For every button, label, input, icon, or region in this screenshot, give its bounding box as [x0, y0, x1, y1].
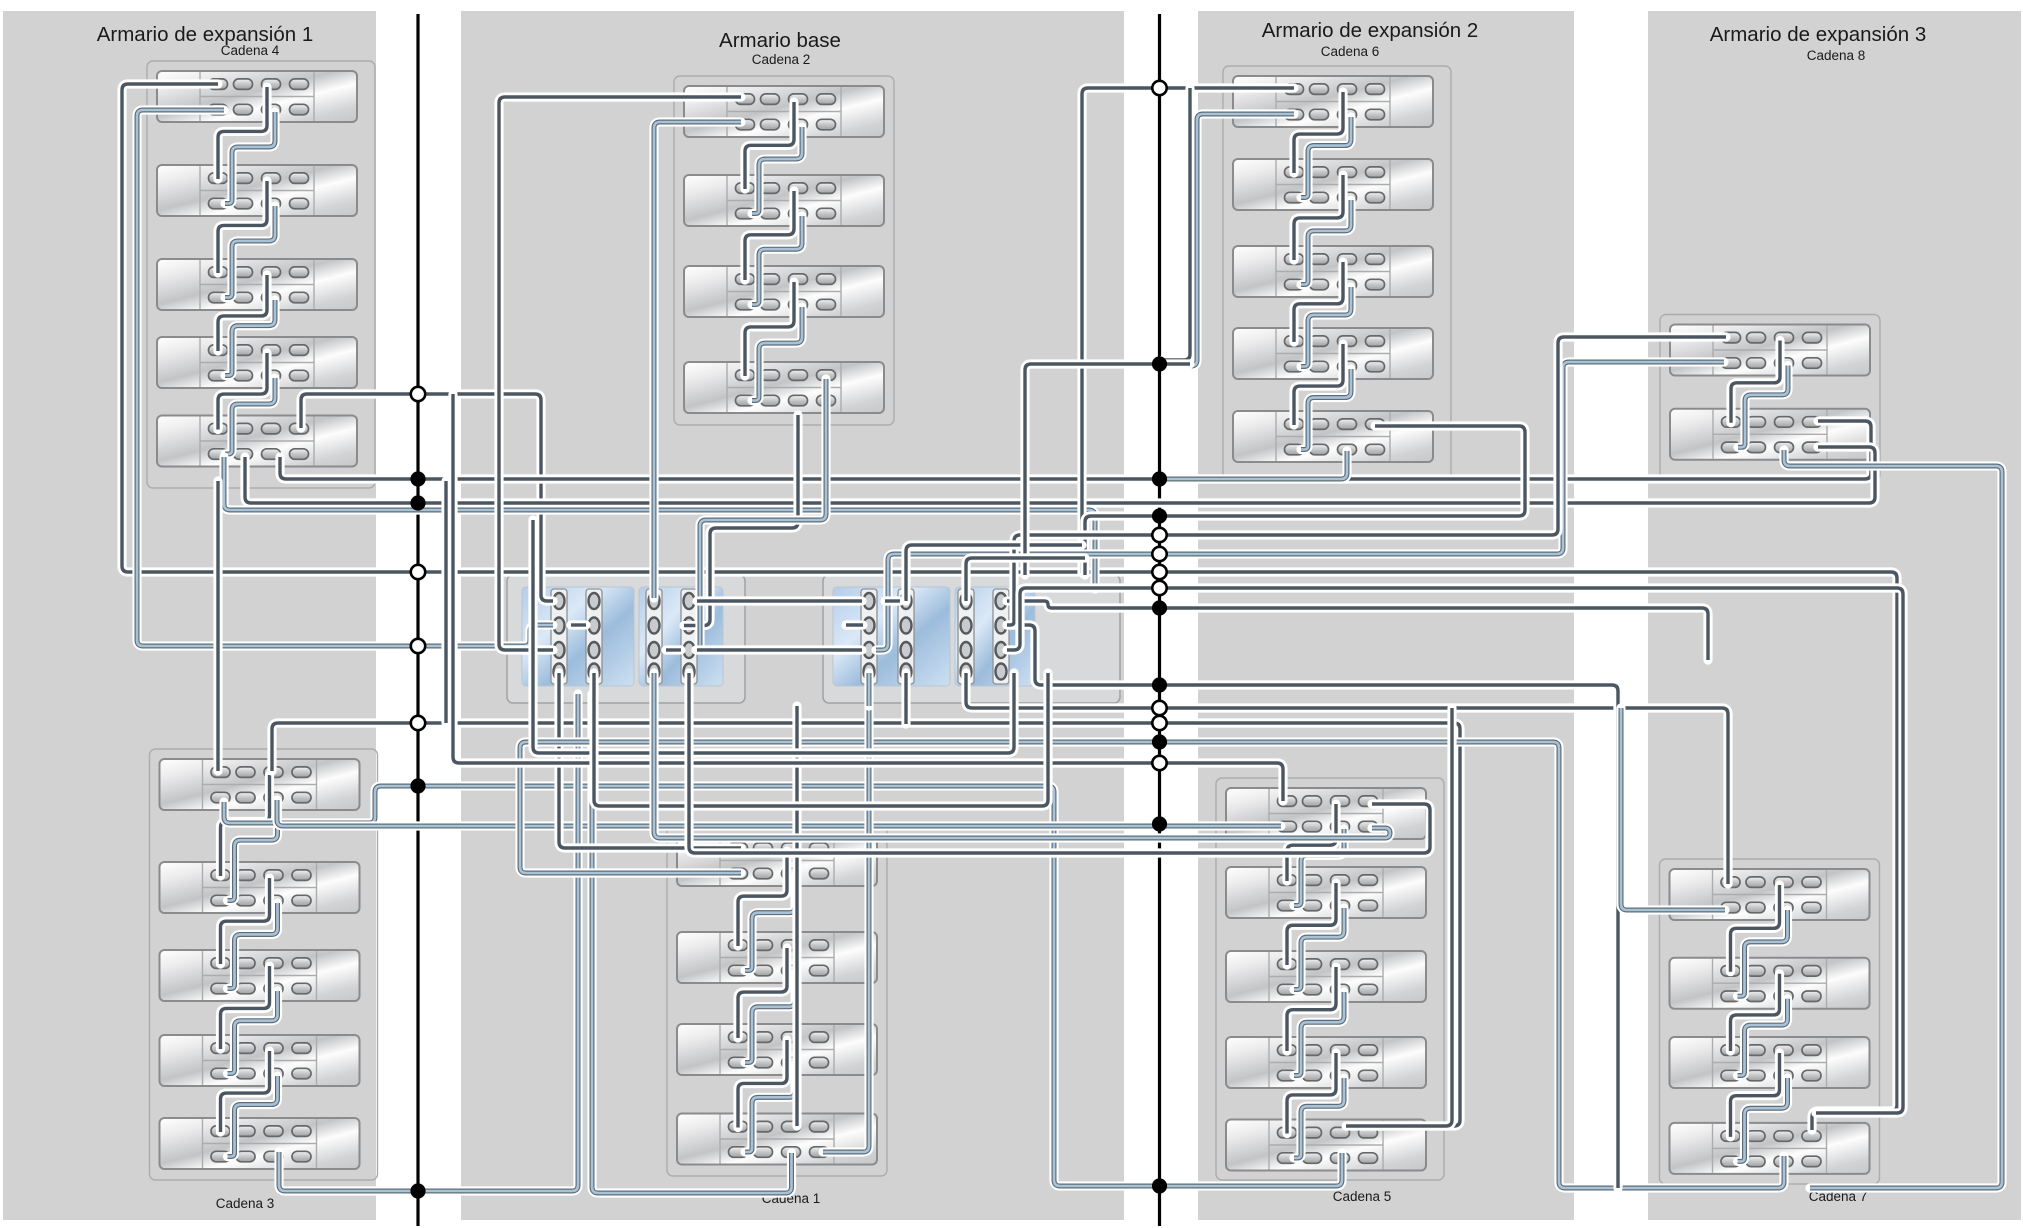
- wire chain C4 gap4 blue: [225, 378, 275, 454]
- wire C2s1 topP1 riser: [499, 97, 741, 650]
- controller U2 board A: [833, 587, 950, 686]
- node right 742: [1152, 734, 1167, 749]
- wire chain C4 gap2 blue: [225, 206, 275, 298]
- wire chain C1 gap1 dark: [738, 851, 787, 946]
- node left 786: [410, 778, 425, 793]
- node right 88: [1152, 81, 1166, 95]
- wire chain C6 gap1 blue: [1301, 117, 1351, 198]
- node left 503: [410, 495, 425, 510]
- disk shelf C4-3: [157, 259, 357, 310]
- disk shelf C4-1: [157, 71, 357, 122]
- wire bus364 left stub: [1025, 364, 1190, 575]
- wire stub U2 strip1 down: [864, 673, 873, 706]
- svg-text:Cadena 3: Cadena 3: [216, 1196, 275, 1211]
- disk shelf C6-2: [1233, 159, 1433, 210]
- wire C2s1 botP1 riser: [654, 122, 741, 598]
- wire hook U1s2 p2: [571, 620, 586, 629]
- node left 394: [411, 387, 425, 401]
- wire chain C5 gap4 blue: [1294, 1078, 1344, 1158]
- panel Armario de expansion 3: [1648, 11, 2021, 1220]
- disk shelf C4-4: [157, 337, 357, 388]
- wire chain C1 gap3 dark: [738, 1040, 787, 1128]
- wire chain C8 gap1 dark: [1731, 341, 1780, 423]
- wire chain C3 gap4 blue: [228, 1076, 278, 1157]
- node left 646: [411, 639, 425, 653]
- controller port strip 1: [551, 589, 567, 684]
- controller U2 chassis: [823, 575, 1120, 703]
- vertical line left: [416, 14, 419, 1226]
- wire chain C4 gap3 blue: [225, 300, 275, 376]
- node right 1186: [1152, 1178, 1167, 1193]
- wire chain C8 gap1 blue: [1738, 366, 1788, 448]
- disk shelf C8-1: [1670, 325, 1870, 376]
- stack outline C6: [1223, 66, 1451, 480]
- node right 516: [1152, 508, 1167, 523]
- disk shelf C6-3: [1233, 246, 1433, 297]
- wire bus685 riser P3P4 gap: [1007, 625, 1618, 1188]
- wire chain C1 gap2 blue: [745, 973, 795, 1063]
- controller port strip 6: [898, 589, 914, 684]
- wire chain C1 gap1 blue: [745, 876, 795, 971]
- wire bus708 to C7s1 topP1: [966, 673, 1728, 884]
- wire chain C4 gap3 dark: [218, 275, 267, 351]
- wire band853 to C5s1 topP4: [689, 673, 1430, 853]
- stack outline C3: [150, 749, 378, 1180]
- wire chain C7 gap1 dark: [1731, 885, 1780, 972]
- wire ctrlA-ctrlB link2: [697, 645, 862, 654]
- wire stub above U2 a: [906, 545, 1082, 601]
- disk shelf C3-4: [160, 1035, 360, 1086]
- node right 535: [1152, 528, 1166, 542]
- stack outline C8: [1660, 315, 1880, 481]
- wire chain C7 gap3 blue: [1738, 1078, 1788, 1161]
- disk shelf C5-2: [1226, 867, 1426, 918]
- svg-text:Cadena 4: Cadena 4: [221, 43, 280, 58]
- wire chain C4 gap2 dark: [218, 181, 267, 273]
- stack outline C2: [674, 76, 894, 425]
- svg-text:Cadena 5: Cadena 5: [1333, 1189, 1392, 1204]
- node right 608: [1152, 600, 1167, 615]
- disk shelf C5-3: [1226, 951, 1426, 1002]
- disk shelf C4-5: [157, 416, 357, 467]
- controller U1 board B: [639, 587, 723, 686]
- vertical line right: [1158, 14, 1161, 1226]
- svg-text:Cadena 8: Cadena 8: [1807, 48, 1866, 63]
- disk shelf C2-2: [684, 175, 884, 226]
- wire hook U2s2 p1: [885, 596, 900, 605]
- wire C1s1 topP1 to U1 strip1: [559, 673, 741, 848]
- wire bus608 hook: [1007, 601, 1708, 660]
- wire band838 to C5s1 botP4: [654, 673, 1390, 838]
- panel Armario de expansion 1: [3, 11, 376, 1220]
- wire ctrlA-ctrlB link1: [697, 596, 862, 605]
- wire branch708 to C5s5 topP3: [1346, 708, 1452, 1126]
- wire chain C5 gap1 blue: [1294, 829, 1344, 906]
- wire chain C4 gap4 dark: [218, 353, 267, 430]
- wire C8s2 botP3 bottom route: [1784, 450, 2002, 1188]
- svg-text:Armario de expansión 3: Armario de expansión 3: [1710, 23, 1927, 46]
- wire chain C3 gap3 blue: [228, 991, 278, 1074]
- wire chain C7 gap1 blue: [1738, 910, 1788, 996]
- disk shelf C4-2: [157, 165, 357, 216]
- wire C6s1 botP1 to node364: [1163, 114, 1294, 366]
- wire stub above U2 b: [966, 558, 1085, 601]
- wire chain C6 gap2 dark: [1294, 175, 1343, 260]
- panel Armario base: [461, 11, 1124, 1220]
- wire chain C2 gap1 blue: [752, 127, 802, 214]
- wire chain C3 gap2 dark: [221, 878, 270, 964]
- wire riser to C1s4 topP3: [792, 706, 801, 1126]
- wire C3s1 topP3 bus723: [272, 723, 1460, 1126]
- disk shelf C3-5: [160, 1118, 360, 1169]
- wire chain C7 gap2 blue: [1738, 999, 1788, 1076]
- controller port strip 4: [681, 589, 697, 684]
- node left 479: [410, 471, 425, 486]
- controller U1 board A: [522, 587, 634, 686]
- wire chain C6 gap4 blue: [1301, 369, 1351, 450]
- wire chain C4 gap1 dark: [218, 87, 267, 179]
- node right 824: [1152, 816, 1167, 831]
- wire C3s1 topP1 riser: [213, 481, 222, 771]
- wire chain C7 gap3 dark: [1731, 1053, 1780, 1137]
- wire chain C6 gap3 dark: [1294, 262, 1343, 342]
- wire chain C4 gap1 blue: [225, 112, 275, 204]
- disk shelf C3-1: [160, 759, 360, 810]
- wire C6s5 botP3 bus479: [1163, 451, 1347, 479]
- wire C1s1 botP1 bus742 to C7s4 botP3: [520, 742, 1784, 1188]
- node right 588: [1152, 581, 1166, 595]
- disk shelf C3-2: [160, 862, 360, 913]
- wire chain C6 gap3 blue: [1301, 287, 1351, 367]
- wire chain C1 gap3 blue: [745, 1065, 795, 1152]
- wire gap riser P1P2: [441, 481, 450, 723]
- wire hook U2s1 p2: [846, 620, 863, 629]
- wire C2s4 topP4 down: [696, 379, 826, 650]
- node right 708: [1152, 701, 1166, 715]
- node right 723: [1152, 716, 1166, 730]
- wire chain C3 gap1 dark: [221, 775, 270, 876]
- wire chain C5 gap3 blue: [1294, 992, 1344, 1076]
- disk shelf C2-3: [684, 266, 884, 317]
- disk shelf C2-1: [684, 86, 884, 137]
- node left 1191: [410, 1183, 425, 1198]
- wire hook U1s4 p3: [666, 645, 681, 654]
- wire C4s5 botP2 bus503 to C8s2 botP4: [245, 447, 1875, 503]
- disk shelf C1-3: [677, 1024, 877, 1075]
- controller port strip 2: [586, 589, 602, 684]
- disk shelf C1-2: [677, 932, 877, 983]
- wire chain C3 gap4 dark: [221, 1051, 270, 1132]
- disk shelf C7-1: [1670, 869, 1870, 920]
- svg-text:Armario base: Armario base: [719, 29, 841, 52]
- wire chain C2 gap2 blue: [752, 216, 802, 305]
- disk shelf C7-4: [1670, 1123, 1870, 1174]
- disk shelf C1-4: [677, 1114, 877, 1165]
- wire chain C3 gap3 dark: [221, 966, 270, 1049]
- wire chain C3 gap2 blue: [228, 903, 278, 989]
- disk shelf C6-5: [1233, 411, 1433, 462]
- wire bus535 to C8s1 topP1: [1007, 337, 1726, 625]
- wire under-controller loop1: [533, 520, 1014, 753]
- stack outline C5: [1216, 778, 1444, 1180]
- wire C4s1 botP1 bus646: [137, 110, 553, 646]
- wire chain C2 gap3 dark: [745, 282, 794, 376]
- wire chain C2 gap1 dark: [745, 102, 794, 189]
- wire chain C6 gap4 dark: [1294, 344, 1343, 425]
- stack outline C4: [147, 61, 375, 488]
- wire C6s5 topP4 bus516: [1085, 426, 1525, 575]
- wire chain C3 gap1 blue: [228, 800, 278, 901]
- disk shelf C6-1: [1233, 76, 1433, 127]
- svg-text:Cadena 6: Cadena 6: [1321, 44, 1380, 59]
- svg-text:Armario de expansión 2: Armario de expansión 2: [1262, 19, 1479, 42]
- disk shelf C1-1: [677, 835, 877, 886]
- disk shelf C7-2: [1670, 958, 1870, 1009]
- wire stub U2 strip2 down: [901, 673, 910, 724]
- disk shelf C7-3: [1670, 1037, 1870, 1088]
- disk shelf C3-3: [160, 950, 360, 1001]
- controller port strip 7: [958, 589, 974, 684]
- svg-text:Cadena 2: Cadena 2: [752, 52, 811, 67]
- wire C4s5 botP3 bus479 to C8s2 topP4: [280, 421, 1871, 479]
- disk shelf C6-4: [1233, 328, 1433, 379]
- node left 572: [411, 565, 425, 579]
- wire chain C5 gap2 dark: [1287, 883, 1336, 965]
- disk shelf C5-5: [1226, 1120, 1426, 1171]
- wire bus88 to C6s1 topP1: [1082, 88, 1294, 573]
- wire C4s5 topP4 bus394: [301, 394, 553, 601]
- node right 763: [1152, 756, 1166, 770]
- node right 554: [1152, 547, 1166, 561]
- node right 479: [1152, 471, 1167, 486]
- controller port strip 8: [993, 589, 1009, 684]
- wire C4s1 topP1 bus572 to C7s4 topP4: [122, 84, 1897, 1130]
- wire chain C6 gap1 dark: [1294, 92, 1343, 173]
- wire riser to C1s4 botP4: [823, 706, 869, 1152]
- disk shelf C8-2: [1670, 409, 1870, 460]
- disk shelf C5-4: [1226, 1037, 1426, 1088]
- controller port strip 3: [646, 589, 662, 684]
- wire C3s1 botP1 bus786 to C5s5: [224, 786, 1342, 1186]
- wire chain C5 gap3 dark: [1287, 967, 1336, 1051]
- controller port strip 5: [861, 589, 877, 684]
- controller U1 chassis: [507, 575, 745, 703]
- wire chain C2 gap3 blue: [752, 307, 802, 401]
- wire chain C7 gap2 dark: [1731, 974, 1780, 1051]
- node left 723: [411, 716, 425, 730]
- panel Armario de expansion 2: [1198, 11, 1574, 1220]
- disk shelf C2-4: [684, 362, 884, 413]
- wire C3s1 botP3 bus824: [277, 800, 1281, 826]
- wire bottom bus to C1s4: [592, 694, 792, 1193]
- stack outline C1: [667, 825, 887, 1176]
- wire gap riser to C7s1 botP1: [1621, 708, 1725, 910]
- wire chain C5 gap1 dark: [1287, 804, 1336, 881]
- wire C3s5 botP3 bottom bus: [279, 694, 578, 1191]
- wire chain C5 gap4 dark: [1287, 1053, 1336, 1134]
- wire chain C6 gap2 blue: [1301, 200, 1351, 285]
- wire bus763 to C5s1 topP1: [453, 394, 1283, 801]
- wire bus554 to C8s1 botP1: [876, 362, 1724, 650]
- node right 685: [1152, 677, 1167, 692]
- node right 572: [1152, 565, 1166, 579]
- wire C2s4 botP3 down: [684, 415, 798, 626]
- wire chain C1 gap2 dark: [738, 948, 787, 1038]
- wire under-controller loop3: [594, 673, 1048, 806]
- disk shelf C5-1: [1226, 788, 1426, 839]
- wire chain C5 gap2 blue: [1294, 908, 1344, 990]
- svg-text:Armario de expansión 1: Armario de expansión 1: [97, 23, 314, 46]
- wire chain C2 gap2 dark: [745, 191, 794, 280]
- wire riser1190 to node364: [1163, 88, 1190, 360]
- wire bus588 partner: [1007, 588, 1903, 1113]
- stack outline C7: [1660, 859, 1880, 1184]
- node right 364: [1152, 356, 1167, 371]
- wire C4s5 botP1 bus510: [224, 457, 1095, 589]
- controller U2 board B: [955, 587, 1035, 686]
